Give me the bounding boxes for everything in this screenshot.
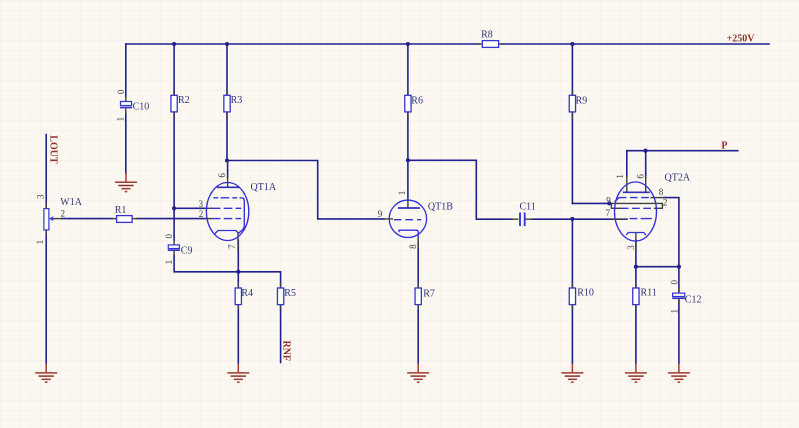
svg-text:8: 8 [408, 244, 418, 249]
svg-text:3: 3 [626, 245, 636, 250]
svg-text:R2: R2 [178, 95, 190, 106]
svg-text:R9: R9 [576, 96, 588, 107]
svg-text:1: 1 [35, 240, 45, 245]
svg-text:W1A: W1A [60, 197, 82, 208]
svg-text:RNF: RNF [281, 341, 292, 362]
svg-text:1: 1 [397, 191, 407, 196]
svg-text:0: 0 [670, 280, 680, 285]
svg-text:9: 9 [378, 209, 383, 219]
svg-text:QT1B: QT1B [428, 202, 453, 213]
svg-text:2: 2 [663, 198, 668, 208]
svg-text:QT2A: QT2A [665, 172, 691, 183]
svg-text:1: 1 [670, 309, 680, 314]
svg-text:R5: R5 [284, 288, 296, 299]
svg-text:1: 1 [615, 174, 625, 179]
svg-text:1: 1 [116, 117, 126, 122]
svg-text:6: 6 [636, 174, 646, 179]
svg-text:C10: C10 [133, 102, 150, 113]
svg-text:0: 0 [116, 89, 126, 94]
svg-text:7: 7 [606, 208, 611, 218]
svg-text:QT1A: QT1A [251, 182, 277, 193]
svg-text:1: 1 [164, 260, 174, 265]
svg-text:R10: R10 [577, 288, 594, 299]
svg-text:6: 6 [217, 173, 227, 178]
svg-text:LOUT: LOUT [47, 135, 58, 164]
svg-text:+250V: +250V [727, 34, 756, 45]
svg-text:C9: C9 [181, 246, 193, 257]
svg-text:R8: R8 [481, 30, 493, 41]
svg-text:R3: R3 [231, 95, 243, 106]
svg-text:7: 7 [227, 244, 237, 249]
svg-text:3: 3 [36, 194, 46, 199]
svg-text:C11: C11 [520, 202, 536, 213]
svg-text:9: 9 [606, 196, 611, 206]
svg-text:R7: R7 [423, 289, 435, 300]
svg-text:R4: R4 [241, 288, 253, 299]
svg-text:2: 2 [61, 209, 66, 219]
svg-text:8: 8 [659, 187, 664, 197]
svg-text:R6: R6 [411, 96, 423, 107]
svg-text:2: 2 [199, 209, 204, 219]
svg-text:C12: C12 [685, 295, 702, 306]
svg-text:R1: R1 [115, 205, 127, 216]
svg-text:P: P [721, 141, 727, 152]
svg-text:3: 3 [199, 199, 204, 209]
svg-text:0: 0 [164, 234, 174, 239]
svg-text:R11: R11 [641, 288, 657, 299]
